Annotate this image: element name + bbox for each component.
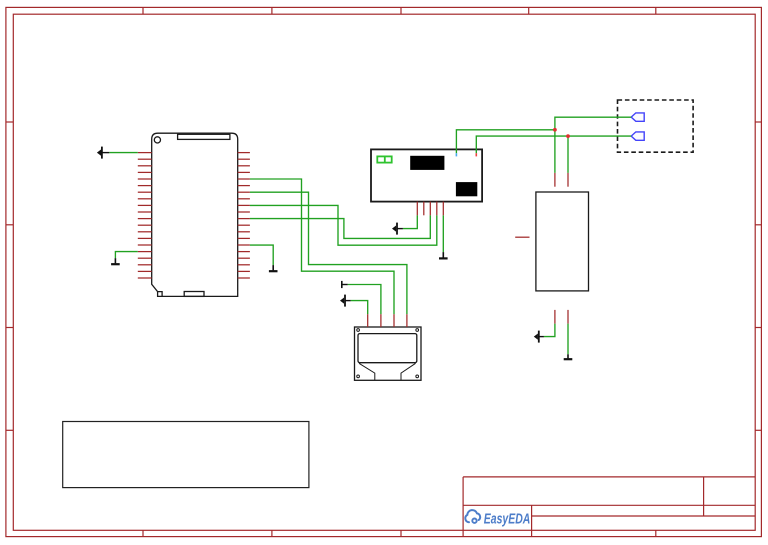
svg-text:EasyEDA: EasyEDA	[484, 512, 531, 528]
